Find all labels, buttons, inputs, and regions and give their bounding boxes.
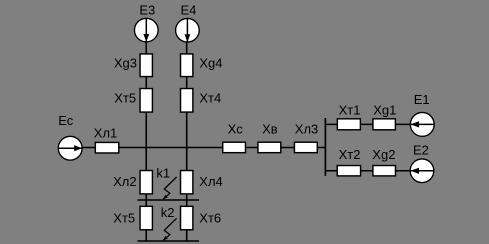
- svg-text:Хт6: Хт6: [199, 210, 221, 225]
- svg-text:Е1: Е1: [414, 92, 430, 107]
- svg-text:Хт1: Хт1: [339, 102, 361, 117]
- svg-text:Хт5: Хт5: [114, 91, 136, 106]
- svg-text:k2: k2: [161, 205, 175, 220]
- svg-text:Е2: Е2: [413, 142, 429, 157]
- svg-text:Хg4: Хg4: [199, 56, 222, 71]
- svg-text:Хg3: Хg3: [114, 55, 137, 70]
- svg-text:Хл4: Хл4: [199, 174, 223, 189]
- svg-text:Хт5: Хт5: [113, 210, 135, 225]
- svg-text:Хв: Хв: [262, 121, 278, 136]
- svg-text:Хл2: Хл2: [113, 174, 137, 189]
- svg-text:Хт2: Хт2: [339, 147, 361, 162]
- svg-text:Хл1: Хл1: [94, 125, 118, 140]
- svg-text:k1: k1: [156, 165, 170, 180]
- svg-text:Ес: Ес: [58, 113, 74, 128]
- svg-text:Е3: Е3: [139, 3, 155, 18]
- svg-text:Хс: Хс: [228, 121, 244, 136]
- svg-text:Хт4: Хт4: [199, 91, 221, 106]
- svg-text:Хg1: Хg1: [373, 102, 396, 117]
- svg-text:Хg2: Хg2: [372, 147, 395, 162]
- svg-text:Хл3: Хл3: [295, 121, 319, 136]
- svg-text:Е4: Е4: [181, 3, 197, 18]
